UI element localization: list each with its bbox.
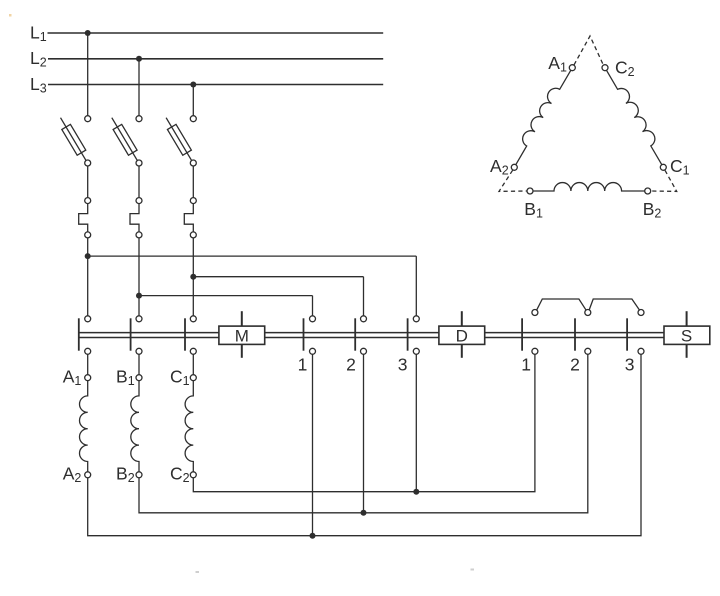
speck artifact top-left [9, 14, 12, 17]
switch position S (cam + actuator) [686, 311, 688, 326]
node branch 1 junction [85, 253, 91, 259]
terminal fuse F2 bottom contact [136, 160, 142, 166]
node branch 3 junction [190, 274, 196, 280]
switch contact blade S2 [574, 318, 576, 350]
terminal fuse F3 top contact [190, 116, 196, 122]
terminal above shaft 1 right [532, 310, 538, 316]
wire contact 1 feeder drop [312, 296, 314, 316]
switch contact blade S1 [521, 318, 523, 350]
svg-text:D: D [456, 326, 468, 345]
wire rail L1 [48, 32, 384, 34]
wire branch 2 to contact 1 (horizontal) [139, 295, 313, 297]
node L3 tap junction [190, 82, 196, 88]
terminal below shaft B [136, 348, 142, 354]
terminal above shaft 1 left [310, 316, 316, 322]
switch contact blade A [78, 318, 80, 350]
wire branch 3 overload to switch terminal [192, 238, 194, 316]
terminal B1 [136, 375, 142, 381]
terminal below shaft 2 right [585, 348, 591, 354]
wire delta contact 1 drop [312, 354, 314, 535]
node row B junction [361, 510, 367, 516]
terminal above shaft B [136, 316, 142, 322]
terminal above shaft 2 right [585, 310, 591, 316]
terminal delta A2 [511, 164, 517, 170]
wire branch 3 fuse to overload [192, 166, 194, 197]
terminal fuse F3 bottom contact [190, 160, 196, 166]
terminal fuse F1 bottom contact [85, 160, 91, 166]
fuse F2 (fuse-disconnector blade) [112, 118, 137, 161]
terminal below shaft 3 right [638, 348, 644, 354]
terminal overload OL1 top contact [85, 198, 91, 204]
terminal A1 [85, 375, 91, 381]
terminal overload OL2 top contact [136, 198, 142, 204]
switch position M (cam + actuator) [241, 311, 243, 326]
speck artifact right [471, 569, 475, 571]
terminal fuse F1 top contact [85, 116, 91, 122]
switch contact blade B [130, 318, 132, 350]
terminal overload OL2 bottom contact [136, 232, 142, 238]
node row C junction [413, 489, 419, 495]
winding B (stator phase coil) [131, 381, 139, 472]
wire branch 1 overload to switch terminal [87, 238, 89, 316]
svg-text:1: 1 [521, 355, 531, 375]
switch contact blade M2 [354, 318, 356, 350]
wire delta contact 3 drop [415, 354, 417, 491]
node L2 tap junction [136, 56, 142, 62]
terminal overload OL3 top contact [190, 198, 196, 204]
winding B1-B2 (delta bottom) [533, 183, 645, 191]
terminal below shaft C [190, 348, 196, 354]
svg-text:2: 2 [570, 355, 580, 375]
wire B2 to star contact 2 (row B) [139, 354, 588, 512]
wire branch 3 to contact 2 (horizontal) [193, 276, 363, 278]
svg-text:3: 3 [398, 355, 408, 375]
terminal B2 [136, 472, 142, 478]
wire star bridge 2-3 [589, 299, 640, 310]
terminal delta B1 [527, 188, 533, 194]
terminal below shaft 1 right [532, 348, 538, 354]
winding C2-C1 (delta right) [607, 70, 662, 164]
wire contact 2 feeder drop [363, 277, 365, 316]
speck artifact left [196, 571, 200, 573]
switch contact blade S3 [626, 318, 628, 350]
overload OL2 thermal element [130, 204, 139, 232]
terminal A2 [85, 472, 91, 478]
terminal fuse F2 top contact [136, 116, 142, 122]
terminal overload OL3 bottom contact [190, 232, 196, 238]
wire contact 3 feeder drop [415, 256, 417, 316]
wire branch 1 drop from rail [87, 33, 89, 116]
terminal above shaft A [85, 316, 91, 322]
switch shaft upper bar [79, 332, 664, 334]
terminal below shaft 3 left [413, 348, 419, 354]
switch contact blade M1 [303, 318, 305, 350]
wire A shaft to winding [87, 354, 89, 374]
terminal above shaft 2 left [361, 316, 367, 322]
switch contact blade C [184, 318, 186, 350]
terminal above shaft C [190, 316, 196, 322]
svg-text:1: 1 [298, 355, 308, 375]
switch contact blade M3 [407, 318, 409, 350]
wire delta apex dashed corner [574, 36, 603, 65]
wire branch 2 fuse to overload [138, 166, 140, 197]
terminal delta B2 [645, 188, 651, 194]
wire branch 2 drop from rail [138, 59, 140, 116]
wire branch 2 overload to switch terminal [138, 238, 140, 316]
terminal overload OL1 bottom contact [85, 232, 91, 238]
wire branch 1 to contact 3 (horizontal) [88, 255, 417, 257]
svg-text:3: 3 [625, 355, 635, 375]
wire delta bottom-right dashed corner [651, 170, 677, 191]
winding A1-A2 (delta left) [516, 70, 571, 164]
winding A (stator phase coil) [79, 381, 87, 472]
wire delta contact 2 drop [363, 354, 365, 512]
wire rail L2 [48, 58, 383, 60]
terminal delta C2 [602, 65, 608, 71]
wire B shaft to winding [138, 354, 140, 374]
switch shaft lower bar [79, 337, 664, 339]
svg-text:M: M [235, 326, 249, 345]
fuse F3 (fuse-disconnector blade) [166, 118, 191, 161]
terminal C1 [190, 375, 196, 381]
svg-text:2: 2 [346, 355, 356, 375]
wire C2 to star contact 1 (row C) [193, 354, 535, 491]
svg-text:S: S [681, 326, 692, 345]
terminal delta C1 [660, 164, 666, 170]
terminal above shaft 3 right [638, 310, 644, 316]
terminal C2 [190, 472, 196, 478]
wire delta bottom-left dashed corner [499, 170, 527, 191]
terminal below shaft A [85, 348, 91, 354]
terminal below shaft 1 left [310, 348, 316, 354]
wire C shaft to winding [192, 354, 194, 374]
terminal below shaft 2 left [361, 348, 367, 354]
overload OL1 thermal element [79, 204, 88, 232]
wire branch 1 fuse to overload [87, 166, 89, 197]
winding C (stator phase coil) [185, 381, 193, 472]
switch position D (cam + actuator) [461, 311, 463, 326]
fuse F1 (fuse-disconnector blade) [61, 118, 86, 161]
overload OL3 thermal element [184, 204, 193, 232]
node L1 tap junction [85, 30, 91, 36]
wire star bridge 1-2 [537, 299, 587, 310]
wire rail L3 [48, 84, 383, 86]
wire branch 3 drop from rail [192, 85, 194, 116]
node branch 2 junction [136, 293, 142, 299]
terminal delta A1 [569, 65, 575, 71]
terminal above shaft 3 left [413, 316, 419, 322]
node row A junction [310, 533, 316, 539]
wire A2 to star contact 3 (row A) [88, 354, 641, 535]
